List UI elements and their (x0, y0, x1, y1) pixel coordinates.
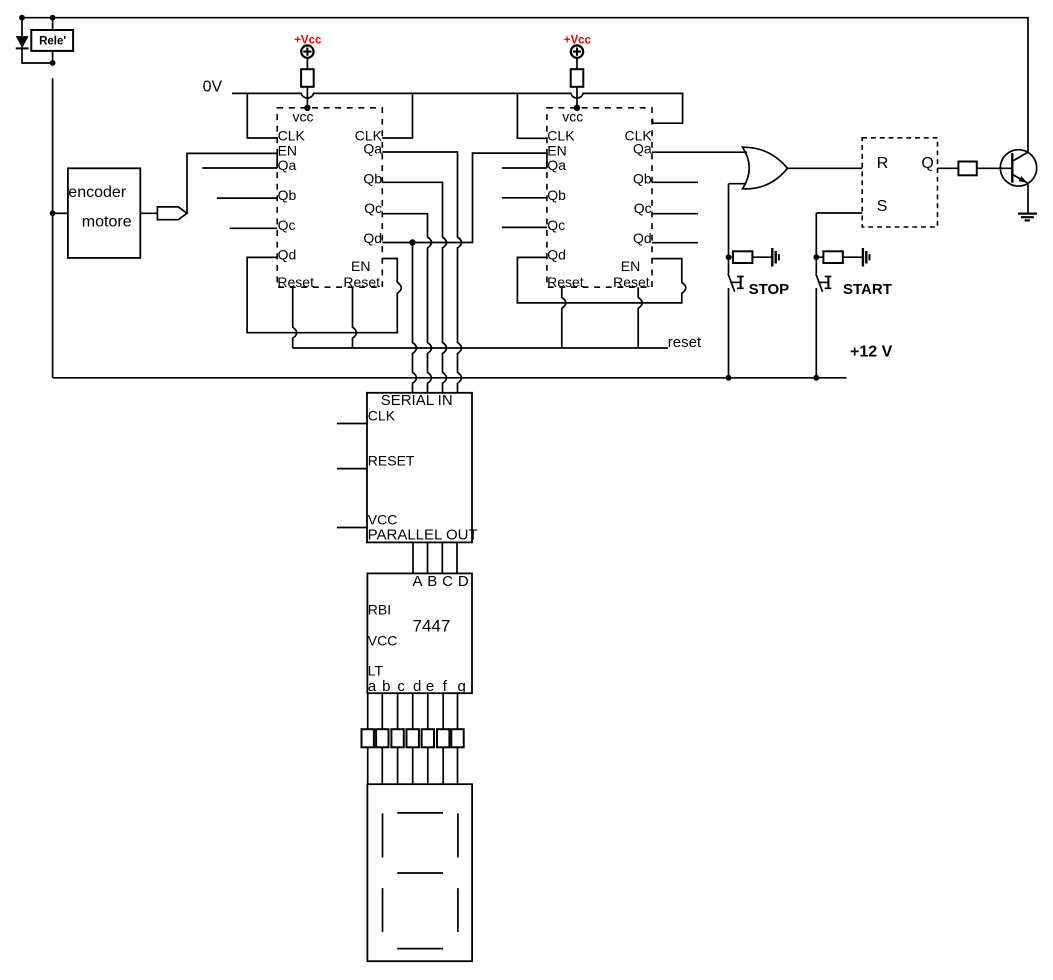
wire +12V bottom rail (53, 377, 847, 379)
junction dot encoder input node (50, 210, 56, 216)
wire U4 output D to 7447 (456, 542, 458, 573)
wire U4 output B to 7447 (427, 542, 429, 573)
junction dot START resistor node (813, 254, 819, 260)
svg-text:RBI: RBI (368, 602, 391, 618)
segment a top (397, 812, 443, 814)
wire U1 Qc right to shift register (382, 214, 431, 393)
segment g middle (397, 872, 443, 874)
pushbutton START (816, 274, 823, 292)
svg-text:0V: 0V (203, 79, 223, 96)
svg-text:Reset: Reset (277, 274, 314, 290)
wire resistor g to display (457, 747, 459, 784)
wire encoder output to buffer (140, 212, 157, 214)
resistor segment g (451, 729, 463, 747)
svg-text:g: g (458, 678, 466, 695)
svg-text:Qb: Qb (547, 187, 566, 203)
svg-text:Qc: Qc (634, 200, 652, 216)
wire resistor b to display (381, 747, 383, 784)
svg-text:Qb: Qb (278, 187, 297, 203)
buffer arrow symbol (157, 207, 187, 220)
resistor R4 STOP pulldown (733, 251, 752, 263)
svg-text:EN: EN (351, 258, 370, 274)
resistor R3 base resistor (958, 162, 976, 176)
resistor segment d (407, 729, 419, 747)
wire or-gate output to latch R (788, 167, 863, 169)
wire U4 output A to 7447 (412, 542, 414, 573)
svg-text:B: B (427, 573, 437, 590)
wire U2 Reset left to reset net (562, 287, 566, 348)
wire diode cathode to relay bottom node (22, 48, 53, 63)
resistor segment b (376, 729, 388, 747)
svg-text:S: S (877, 198, 888, 215)
svg-text:CLK: CLK (278, 128, 306, 144)
svg-text:c: c (397, 678, 405, 695)
wire encoder input (53, 212, 68, 214)
wire U2 Qb right stub (652, 181, 698, 183)
svg-text:CLK: CLK (368, 408, 396, 424)
svg-text:a: a (368, 678, 377, 695)
wire START node to resistor R5 (816, 256, 823, 258)
junction dot U1 Qd branch (409, 239, 415, 245)
wire U4 VCC stub (337, 527, 367, 529)
wire U1 CLK left hook from 0V rail (247, 93, 277, 138)
wire IC1 Qc left stub (230, 227, 278, 229)
wire latch Q output to resistor R3 (938, 167, 959, 169)
wire reset net horizontal (293, 347, 668, 349)
wire resistor c to display (397, 747, 399, 784)
wire U2 CLK left hook from 0V rail (517, 93, 547, 138)
wire resistor R5 to ground (843, 256, 863, 258)
svg-text:Qb: Qb (363, 170, 382, 186)
wire STOP branch vertical from or-gate (728, 184, 730, 274)
wire 0V rail with hops over resistor leads (232, 93, 683, 123)
wire U4 CLK stub (337, 423, 367, 425)
svg-text:Qd: Qd (633, 230, 652, 246)
svg-text:vcc: vcc (293, 109, 314, 125)
wire segment g to resistor (457, 693, 459, 729)
wire U1 Qb right to shift register (382, 182, 446, 392)
counter U2 dashed box (547, 108, 652, 287)
wire U4 RESET stub (337, 468, 367, 470)
wire resistor R2 to IC2 vcc pin (576, 87, 578, 108)
wire resistor R1 to IC1 vcc pin (306, 87, 308, 108)
wire U1 Reset left to reset net (293, 287, 297, 348)
svg-text:VCC: VCC (368, 632, 398, 648)
wire segment f to resistor (442, 693, 444, 729)
relay box Rele' (31, 30, 73, 51)
junction dot START on +12V rail (813, 375, 819, 381)
wire U2 Qc left stub (502, 226, 547, 228)
or-gate G1 (743, 147, 788, 189)
resistor R1 pullup IC1 (301, 69, 314, 87)
svg-text:C: C (442, 573, 453, 590)
pushbutton STOP (728, 274, 735, 292)
counter U1 dashed box (277, 108, 382, 287)
svg-text:Rele': Rele' (39, 36, 66, 48)
wire relay bottom lead (52, 51, 54, 63)
wire U2 edge link EN to Qa (546, 153, 548, 168)
wire U1 Qd down to shift register (413, 243, 417, 393)
wire left vertical drop to +12V rail (52, 78, 54, 378)
seven segment display DS1 box (367, 784, 472, 961)
svg-text:STOP: STOP (749, 281, 790, 298)
wire U4 output C to 7447 (441, 542, 443, 573)
wire U1 Qa right to shift register (382, 152, 461, 393)
svg-text:Qb: Qb (633, 170, 652, 186)
wire resistor f to display (442, 747, 444, 784)
svg-text:encoder: encoder (68, 184, 126, 201)
wire segment d to resistor (412, 693, 414, 729)
wire buffer output to IC1 EN pin (187, 153, 277, 213)
wire transistor emitter to ground (1027, 183, 1029, 213)
wire U2 Reset right to reset net (638, 287, 642, 348)
segment b upper right (457, 813, 459, 857)
svg-text:d: d (413, 678, 421, 695)
wire U2 Qd right stub (652, 242, 698, 244)
wire relay top lead (52, 18, 54, 30)
resistor segment a (362, 729, 374, 747)
svg-text:Qa: Qa (363, 141, 382, 157)
latch U3 dashed box (862, 138, 937, 227)
wire IC1 edge link EN to Qa (276, 153, 278, 168)
segment c lower right (457, 888, 459, 932)
svg-text:EN: EN (621, 258, 640, 274)
ground symbol at STOP resistor (771, 248, 773, 267)
wire +Vcc to resistor R2 (576, 58, 578, 69)
svg-text:+12 V: +12 V (850, 344, 893, 361)
wire U1 CLK right hook to 0V rail (382, 93, 412, 138)
diode D1 freewheel (16, 36, 29, 48)
wire segment e to resistor (427, 693, 429, 729)
wire U2 Qa left stub (502, 167, 547, 169)
wire segment b to resistor (381, 693, 383, 729)
wire IC1 Qb left stub (217, 197, 277, 199)
wire U2 Qd left to EN right link (517, 257, 685, 303)
svg-text:reset: reset (668, 334, 702, 351)
svg-text:R: R (877, 155, 889, 172)
wire U2 Qb left stub (502, 197, 547, 199)
wire START button to +12V rail (815, 288, 817, 378)
svg-text:Reset: Reset (343, 274, 380, 290)
svg-text:Qc: Qc (278, 217, 296, 233)
svg-text:VCC: VCC (368, 512, 398, 528)
wire U1 Qd right to U2 EN (382, 153, 547, 242)
svg-text:CLK: CLK (547, 128, 575, 144)
svg-text:motore: motore (82, 214, 132, 231)
wire U1 Qd left to EN right link (247, 257, 401, 332)
ground symbol at START resistor (862, 248, 864, 267)
junction dot STOP on +12V rail (726, 375, 732, 381)
svg-text:PARALLEL OUT: PARALLEL OUT (368, 526, 478, 543)
svg-text:e: e (426, 678, 434, 695)
wire diode anode drop (21, 18, 23, 36)
resistor R5 START pulldown (823, 251, 842, 263)
svg-text:b: b (382, 678, 390, 695)
wire or-gate lower input from STOP branch (729, 183, 747, 185)
transistor Q1 NPN (1000, 150, 1036, 186)
wire U2 Qc right stub (652, 213, 698, 215)
wire resistor R4 to ground (752, 256, 772, 258)
svg-text:Qa: Qa (278, 157, 297, 173)
svg-text:vcc: vcc (562, 109, 583, 125)
wire U1 Reset right to reset net (353, 287, 357, 348)
svg-text:Q: Q (921, 155, 933, 172)
wire resistor d to display (412, 747, 414, 784)
svg-text:Qa: Qa (547, 157, 566, 173)
wire STOP node to resistor R4 (729, 256, 734, 258)
svg-text:Qa: Qa (633, 141, 652, 157)
decoder U5 7447 box (367, 573, 472, 693)
junction dot IC2 vcc pin (574, 105, 580, 111)
wire START branch vertical from latch S (815, 213, 817, 274)
svg-text:D: D (458, 573, 469, 590)
wire segment c to resistor (397, 693, 399, 729)
junction dot STOP resistor node (726, 254, 732, 260)
svg-text:START: START (843, 281, 892, 298)
svg-text:7447: 7447 (413, 616, 451, 635)
junction dot relay bottom node (50, 60, 56, 66)
junction dot relay top node (50, 15, 56, 21)
svg-text:RESET: RESET (368, 453, 415, 469)
svg-text:Reset: Reset (613, 274, 650, 290)
svg-text:Qd: Qd (363, 230, 382, 246)
ground symbol at transistor emitter (1018, 213, 1037, 215)
svg-text:Qc: Qc (364, 200, 382, 216)
svg-text:A: A (412, 573, 422, 590)
svg-text:SERIAL IN: SERIAL IN (381, 392, 453, 409)
wire STOP button to +12V rail (728, 288, 730, 378)
resistor segment c (391, 729, 403, 747)
junction dot IC1 vcc pin (304, 105, 310, 111)
wire +Vcc to resistor R1 (306, 58, 308, 69)
wire top rail from diode to transistor collector (22, 18, 1028, 152)
shift register U4 box (367, 393, 472, 543)
wire resistor a to display (367, 747, 369, 784)
wire segment a to resistor (367, 693, 369, 729)
resistor segment e (422, 729, 434, 747)
svg-text:Qd: Qd (547, 247, 566, 263)
wire resistor e to display (427, 747, 429, 784)
resistor segment f (437, 729, 449, 747)
svg-text:Qd: Qd (278, 247, 297, 263)
wire resistor R3 to transistor base (977, 167, 1013, 169)
junction dot top-left diode node (19, 15, 25, 21)
wire latch S input (816, 212, 862, 214)
wire U2 Qa right to OR gate input (652, 151, 747, 153)
segment e lower left (382, 888, 384, 932)
svg-text:LT: LT (368, 663, 384, 679)
segment d bottom (397, 948, 443, 950)
svg-text:Reset: Reset (547, 274, 584, 290)
segment f upper left (382, 813, 384, 857)
wire IC1 Qa left stub (202, 167, 277, 169)
encoder motore box (68, 168, 140, 258)
svg-text:Qc: Qc (547, 217, 565, 233)
resistor R2 pullup IC2 (571, 69, 584, 87)
